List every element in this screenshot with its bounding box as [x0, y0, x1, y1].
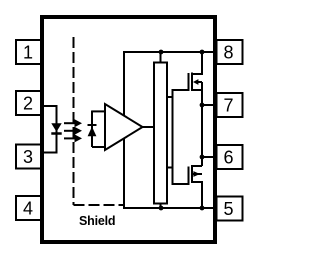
svg-text:2: 2 — [23, 94, 33, 114]
svg-text:5: 5 — [223, 199, 233, 219]
svg-text:8: 8 — [223, 43, 233, 63]
svg-text:4: 4 — [23, 199, 33, 219]
svg-text:Shield: Shield — [79, 214, 115, 228]
svg-text:7: 7 — [223, 96, 233, 116]
svg-text:6: 6 — [223, 148, 233, 168]
svg-text:3: 3 — [23, 147, 33, 167]
svg-text:1: 1 — [23, 43, 33, 63]
